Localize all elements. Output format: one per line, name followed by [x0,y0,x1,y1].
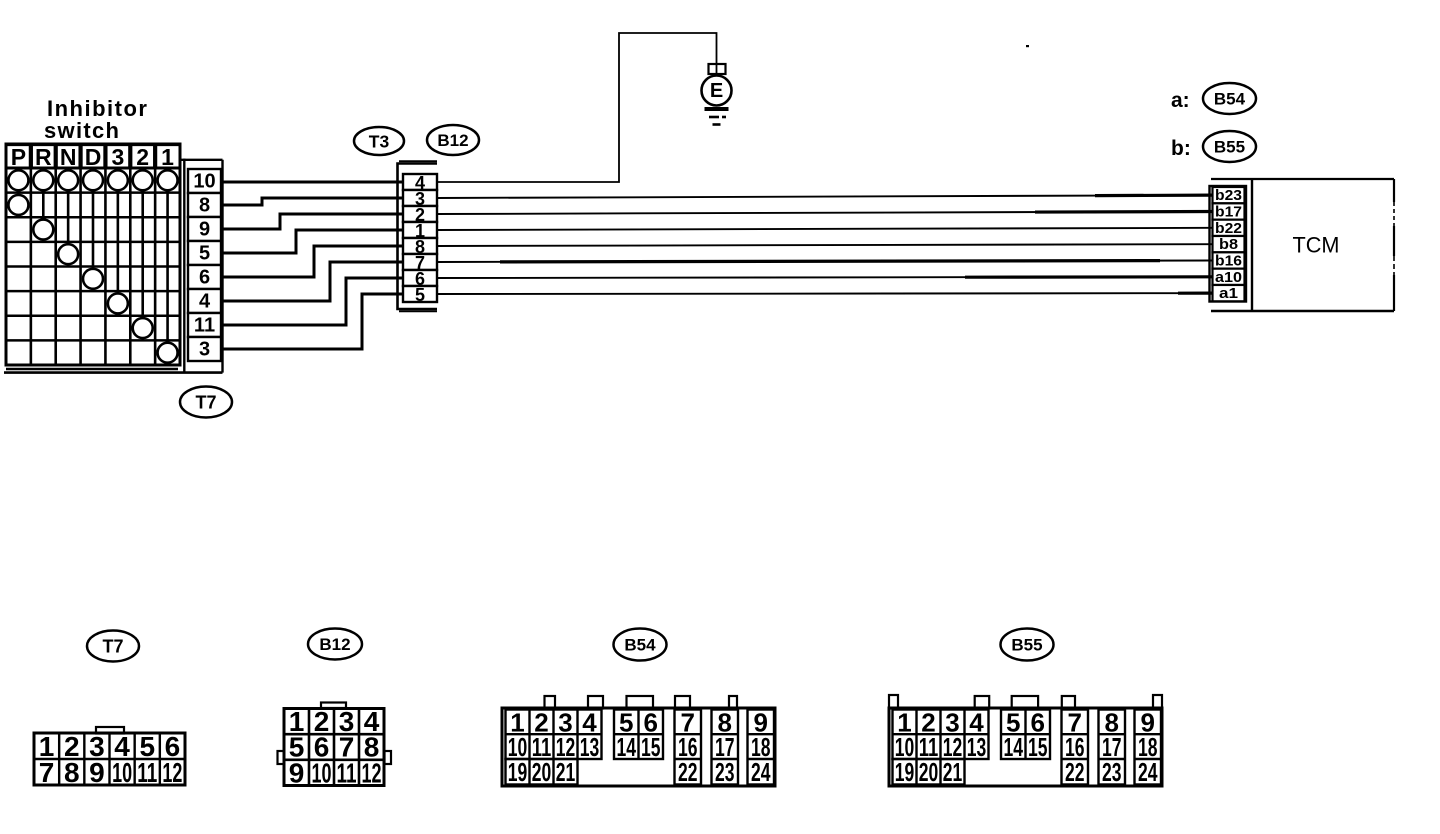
T7 face pin 4 [114,731,130,762]
B55 face pin 8 [1105,708,1119,738]
B55 face pin block 19-21 [893,759,965,785]
B54 face pin 11 [532,732,552,762]
B12 face pin 2 [314,706,330,737]
svg-text:B54: B54 [624,636,656,655]
B55 face pin 13 [967,732,987,762]
B12 face pin 6 [314,732,330,763]
B55 face pin 1 [897,708,911,738]
switch column 1: contacts and wire [158,168,178,365]
svg-text:a:: a: [1171,89,1190,112]
B54 face pin 10 [508,732,528,762]
B12 face pin 4 [364,706,380,737]
T7 face pin 8 [64,757,80,788]
B55 face pin 6 [1031,708,1045,738]
TCM pin b17 [1213,203,1245,220]
svg-text:21: 21 [943,757,963,787]
svg-text:T7: T7 [102,637,123,657]
switch column 2: contacts and wire [133,168,153,340]
B54 face pin strip 7/16/22 [675,710,702,785]
B55 face pin 10 [895,732,915,762]
T7 pin 5 [188,241,221,265]
svg-text:E: E [710,80,723,102]
B55 face pin 12 [943,732,963,762]
B55 face pin 2 [921,708,935,738]
svg-text:8: 8 [64,757,80,788]
wire T7 pin 8 to B12 pin 3 [221,198,403,205]
T7 pin 10 [188,169,221,193]
B55 face pin 19 [895,757,915,787]
T7 face pin 7 [39,757,55,788]
B55 face pin 21 [943,757,963,787]
B12 pin 4 [403,173,437,193]
B54 face pin 15 [641,732,661,762]
wire B12 pin 6 to TCM pin a10 [437,277,1213,278]
svg-text:D: D [85,144,102,170]
T7 pin 11 [188,313,221,337]
B54 face pin 3 [558,708,572,738]
B54 face pin 19 [508,757,528,787]
B54 face pin 24 [751,757,771,787]
B54 face pin block 5-6/14-15 [614,710,663,760]
TCM pin b8 [1213,236,1245,253]
B55 face pin 7 [1068,708,1082,738]
T7 pin 9 [188,217,221,241]
connector B54 face view oval [614,629,667,661]
svg-text:6: 6 [199,267,210,289]
svg-text:a1: a1 [1219,285,1238,302]
T7 face pin 5 [139,731,155,762]
B12 face body [284,709,384,786]
B12 face pin 11 [337,757,357,788]
B12 pin 7 [403,253,437,273]
B55 face pin 17 [1102,732,1122,762]
svg-text:22: 22 [1065,757,1085,787]
B54 face pin 13 [580,732,600,762]
B55 face pin 16 [1065,732,1085,762]
B54 face pin 4 [582,708,597,738]
B54 face pin 17 [715,732,735,762]
B55 face pin 3 [945,708,959,738]
svg-text:13: 13 [580,732,600,762]
B12 face pin 7 [339,732,355,763]
B55 face pin 24 [1138,757,1158,787]
B12 pin 2 [403,205,437,225]
grid header gear letters P R N D 3 2 1 [11,144,174,170]
B55 face pin block 5-6/14-15 [1001,710,1050,760]
svg-text:10: 10 [112,757,132,788]
svg-text:B12: B12 [437,131,468,150]
svg-text:b16: b16 [1215,252,1242,269]
svg-text:B55: B55 [1011,636,1042,655]
ground connector E terminal cap [709,64,726,74]
ground connector E circle [702,76,732,106]
svg-text:20: 20 [532,757,552,787]
svg-text:B54: B54 [1214,90,1246,109]
T7 pin 8 [188,193,221,217]
B55 face pin strip 9/18/24 [1135,710,1162,785]
wire T7 pin 4 to B12 pin 7 [221,262,403,301]
oval B54 reference [1203,83,1256,114]
T7 pin 4 [188,289,221,313]
B54 face outer shell [502,708,775,786]
svg-text:14: 14 [617,732,637,762]
svg-text:9: 9 [89,757,105,788]
svg-text:3: 3 [111,144,124,170]
wire B12 pin 4 to ground E [437,33,717,182]
svg-text:T7: T7 [195,393,216,413]
svg-text:b:: b: [1171,137,1191,160]
B54 face pin 23 [715,757,735,787]
wire T7 pin 10 to B12 pin 4 [221,181,403,184]
svg-text:12: 12 [162,757,182,788]
connector B55 face view oval [1001,629,1054,661]
svg-text:B55: B55 [1214,138,1245,157]
wire B12 pin 1 to TCM pin b22 [437,228,1213,230]
B12 face pin 10 [312,757,332,788]
svg-text:23: 23 [1102,757,1122,787]
TCM pin strip outer box [1210,186,1247,302]
B54 face pin 22 [678,757,698,787]
svg-text:20: 20 [919,757,939,787]
svg-text:10: 10 [312,757,332,788]
B54 face pin 12 [556,732,576,762]
T7 face pin 2 [64,731,80,762]
ground symbol hatch [705,109,729,125]
B12 face pin 1 [289,706,305,737]
B54 face pin 21 [556,757,576,787]
T7 face pin 11 [137,757,157,788]
B55 face pin block 1-4/10-13 [893,710,989,760]
svg-text:b22: b22 [1215,220,1242,237]
svg-text:switch: switch [44,118,120,143]
TCM pin a10 [1213,269,1245,286]
svg-text:19: 19 [508,757,528,787]
B12 face pin 9 [289,757,305,788]
svg-text:7: 7 [39,757,55,788]
svg-text:15: 15 [641,732,661,762]
switch column R: contacts and wire [33,168,53,242]
svg-text:14: 14 [1004,732,1024,762]
svg-text:13: 13 [967,732,987,762]
svg-text:2: 2 [136,144,149,170]
wire B12 pin 3 to TCM pin b23 [437,195,1213,198]
label b: B55 [1171,137,1191,160]
svg-text:15: 15 [1028,732,1048,762]
switch column 3: contacts and wire [108,168,128,316]
B12 face side tabs [278,751,392,764]
svg-text:21: 21 [556,757,576,787]
T7 pin 3 [188,337,221,361]
B54 face pin 8 [718,708,732,738]
B55 face pin strip 7/16/22 [1062,710,1089,785]
svg-text:a10: a10 [1215,269,1242,286]
label: Inhibitor switch [44,96,148,143]
svg-text:10: 10 [193,171,215,193]
B12 face top tab [321,703,346,709]
B54 face pin 1 [510,708,524,738]
B12 face pin 12 [362,757,382,788]
svg-text:22: 22 [678,757,698,787]
svg-text:9: 9 [289,757,305,788]
B12 pin 1 [403,221,437,241]
T7 face pin 3 [89,731,105,762]
wire T7 pin 11 to B12 pin 6 [221,278,403,325]
TCM pin b23 [1213,187,1245,204]
svg-text:11: 11 [337,757,357,788]
switch column N: contacts and wire [58,168,78,267]
B12 face pin 5 [289,732,305,763]
svg-text:19: 19 [895,757,915,787]
B55 face pin 18 [1138,732,1158,762]
B54 face pin 9 [754,708,768,738]
B55 face pin 22 [1065,757,1085,787]
svg-text:1: 1 [161,144,174,170]
connector T7 pin strip outer box [180,159,223,373]
B54 face pin 2 [534,708,548,738]
B12 face pin 8 [364,732,380,763]
B12 pin 3 [403,189,437,209]
B55 face top tabs [889,695,1162,709]
B55 face pin 20 [919,757,939,787]
B55 face pin strip 8/17/23 [1099,710,1126,785]
svg-text:12: 12 [362,757,382,788]
B12 pin 8 [403,237,437,257]
B54 face pin 5 [619,708,633,738]
T7 face top tab [96,727,124,734]
B55 face pin 5 [1006,708,1020,738]
wire B12 pin 5 to TCM pin a1 [437,292,1213,295]
wire T7 pin 3 to B12 pin 5 [221,294,403,349]
B54 face top tabs [545,696,738,709]
B54 face pin 6 [644,708,658,738]
B55 face pin 14 [1004,732,1024,762]
svg-text:3: 3 [199,339,210,361]
wire T7 pin 5 to B12 pin 1 [221,230,403,253]
T7 face pin 1 [39,731,55,762]
T7 face pin 12 [162,757,182,788]
scan speck [1026,45,1029,47]
svg-text:P: P [11,144,26,170]
B55 face pin 4 [969,708,984,738]
TCM pin b22 [1213,220,1245,237]
T7 face pin 10 [112,757,132,788]
B55 face pin 9 [1141,708,1155,738]
T7 face pin 6 [165,731,181,762]
wire T7 pin 6 to B12 pin 8 [221,246,403,277]
svg-text:R: R [35,144,52,170]
svg-text:24: 24 [1138,757,1158,787]
B54 face pin 7 [681,708,695,738]
svg-text:b8: b8 [1219,236,1238,253]
B55 face pin 11 [919,732,939,762]
B12 pin 5 [403,285,437,305]
B54 face pin block 1-4/10-13 [506,710,602,760]
connector B12 face view oval [308,629,362,660]
TCM pin b16 [1213,252,1245,269]
svg-text:T3: T3 [369,132,390,152]
svg-text:11: 11 [194,315,215,337]
grid bottom base lines [4,369,223,373]
B54 face pin strip 9/18/24 [748,710,775,785]
oval B55 reference [1203,131,1256,162]
B54 face pin 16 [678,732,698,762]
svg-text:4: 4 [199,291,211,313]
TCM box [1211,179,1394,311]
svg-text:23: 23 [715,757,735,787]
svg-text:N: N [60,144,77,170]
B54 face pin 14 [617,732,637,762]
svg-text:b23: b23 [1215,187,1242,204]
TCM pin a1 [1213,285,1245,302]
connector label oval T7 [180,387,232,418]
connector label oval B12 [427,125,479,155]
svg-text:24: 24 [751,757,771,787]
svg-text:11: 11 [137,757,157,788]
B12 pin 6 [403,269,437,289]
svg-text:TCM: TCM [1293,233,1340,258]
T7 face pin 9 [89,757,105,788]
B54 face pin 18 [751,732,771,762]
B54 face pin strip 8/17/23 [712,710,739,785]
wire B12 pin 2 to TCM pin b17 [437,211,1213,214]
svg-text:b17: b17 [1215,203,1242,220]
svg-text:9: 9 [199,219,210,241]
B55 face pin 15 [1028,732,1048,762]
svg-text:B12: B12 [319,635,350,654]
switch column P: contacts and wire [8,168,28,217]
wire B12 pin 7 to TCM pin b16 [437,260,1213,262]
svg-text:5: 5 [415,285,425,305]
B54 face pin 20 [532,757,552,787]
switch column D: contacts and wire [83,168,103,291]
connector label oval T3 [354,127,404,155]
connector T7 face view oval [87,631,139,662]
label a: B54 [1171,89,1190,112]
connector T3/B12 outer box [398,161,438,311]
svg-text:8: 8 [199,195,210,217]
B54 face pin block 19-21 [506,759,578,785]
T7 face body [34,733,185,785]
wire T7 pin 9 to B12 pin 2 [221,214,403,229]
inhibitor switch grid frame [6,144,180,365]
B55 face pin 23 [1102,757,1122,787]
wire B12 pin 8 to TCM pin b8 [437,244,1213,246]
svg-text:5: 5 [199,243,210,265]
B55 face outer shell [889,708,1162,786]
T7 pin 6 [188,265,221,289]
B12 face pin 3 [339,706,355,737]
